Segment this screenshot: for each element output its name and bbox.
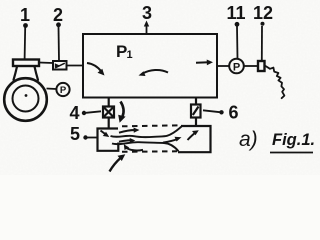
flow arrow (inlet, curved down-right) (87, 63, 105, 76)
svg-text:4: 4 (69, 103, 79, 123)
flow arrow (outlet, straight right) (196, 60, 213, 66)
svg-text:12: 12 (253, 3, 273, 23)
wire gauge 11 to valve 12 (244, 65, 258, 67)
svg-text:1: 1 (20, 5, 30, 25)
throttle valve 2 (53, 61, 67, 70)
valve 6 (rectangle with slash) (191, 105, 201, 118)
wire from label 12 to valve 12 (261, 26, 263, 61)
caption Fig. 1. (underlined) (270, 131, 315, 153)
arrow inside mixing box 5 (101, 131, 110, 138)
wire throttle 2 to chamber 3 (67, 65, 84, 67)
pressure gauge 11 (229, 59, 244, 74)
wire chamber 3 to gauge 11 (217, 65, 230, 67)
flow arrow entering diffuser (163, 137, 182, 143)
stub chamber 3 to valve 4 (108, 98, 110, 107)
diffuser box (right box with bell mouth) (178, 126, 211, 152)
valve 12 (258, 61, 265, 71)
lower jet contour (112, 142, 179, 151)
bold down arrow right of valve 4 (118, 102, 125, 123)
svg-text:1: 1 (127, 49, 133, 61)
label P1 inside chamber (116, 42, 133, 61)
flow arrow (middle, curved left) (139, 70, 169, 76)
flow arrow inside diffuser box (188, 130, 199, 140)
pump 1 (blower with volute casing) (4, 60, 47, 121)
discharge squiggle from valve 12 (266, 66, 285, 98)
leader from label 4 to valve 4 (86, 111, 101, 113)
svg-text:a): a) (239, 128, 258, 151)
bottom dashed casing line (122, 150, 177, 153)
small flow arrow mid-left of channel (119, 138, 135, 143)
stub chamber 3 to valve 6 (195, 98, 197, 105)
top dashed casing line (122, 125, 180, 126)
svg-text:6: 6 (228, 103, 238, 123)
external suction arrow (bottom left, pointing up-right) (110, 154, 126, 171)
svg-text:11: 11 (226, 3, 245, 23)
leader from label 5 to mixing box 5 (88, 137, 98, 139)
stub valve 6 to diffuser box (195, 118, 197, 127)
svg-text:P: P (233, 62, 240, 74)
valve 4 (square with X) (103, 107, 114, 118)
mixing box 5 (left box, right edge partly open) (98, 129, 119, 151)
wire from label 2 to throttle 2 (58, 27, 61, 61)
svg-text:3: 3 (142, 3, 152, 23)
arrow from chamber 3 up to label 3 (144, 21, 149, 34)
pressure gauge P (on pump) (47, 83, 70, 96)
label 11 (226, 3, 245, 27)
wire from label 1 to pump flange (24, 27, 27, 59)
scan texture (0, 0, 320, 175)
label 4 (69, 103, 86, 123)
stub valve 4 to mixing box 5 (108, 118, 110, 129)
wire pump to throttle 2 (39, 62, 53, 65)
label 12 (253, 3, 273, 26)
chamber 3 (rectangle) (83, 34, 217, 98)
svg-text:P: P (60, 85, 67, 96)
wire from label 11 to gauge 11 (236, 27, 239, 60)
label 1 (20, 5, 30, 28)
svg-text:2: 2 (53, 5, 63, 25)
svg-text:Fig.1.: Fig.1. (272, 131, 315, 149)
label 2 (53, 5, 63, 27)
small flow arrow upper-left of channel (119, 128, 140, 133)
leader from valve 6 to label 6 (203, 110, 224, 114)
recirculation arrow (curved back, lower channel) (124, 144, 143, 150)
svg-text:5: 5 (70, 124, 80, 144)
upper jet contour (bell curve) (111, 127, 182, 138)
label 5 (70, 124, 88, 144)
